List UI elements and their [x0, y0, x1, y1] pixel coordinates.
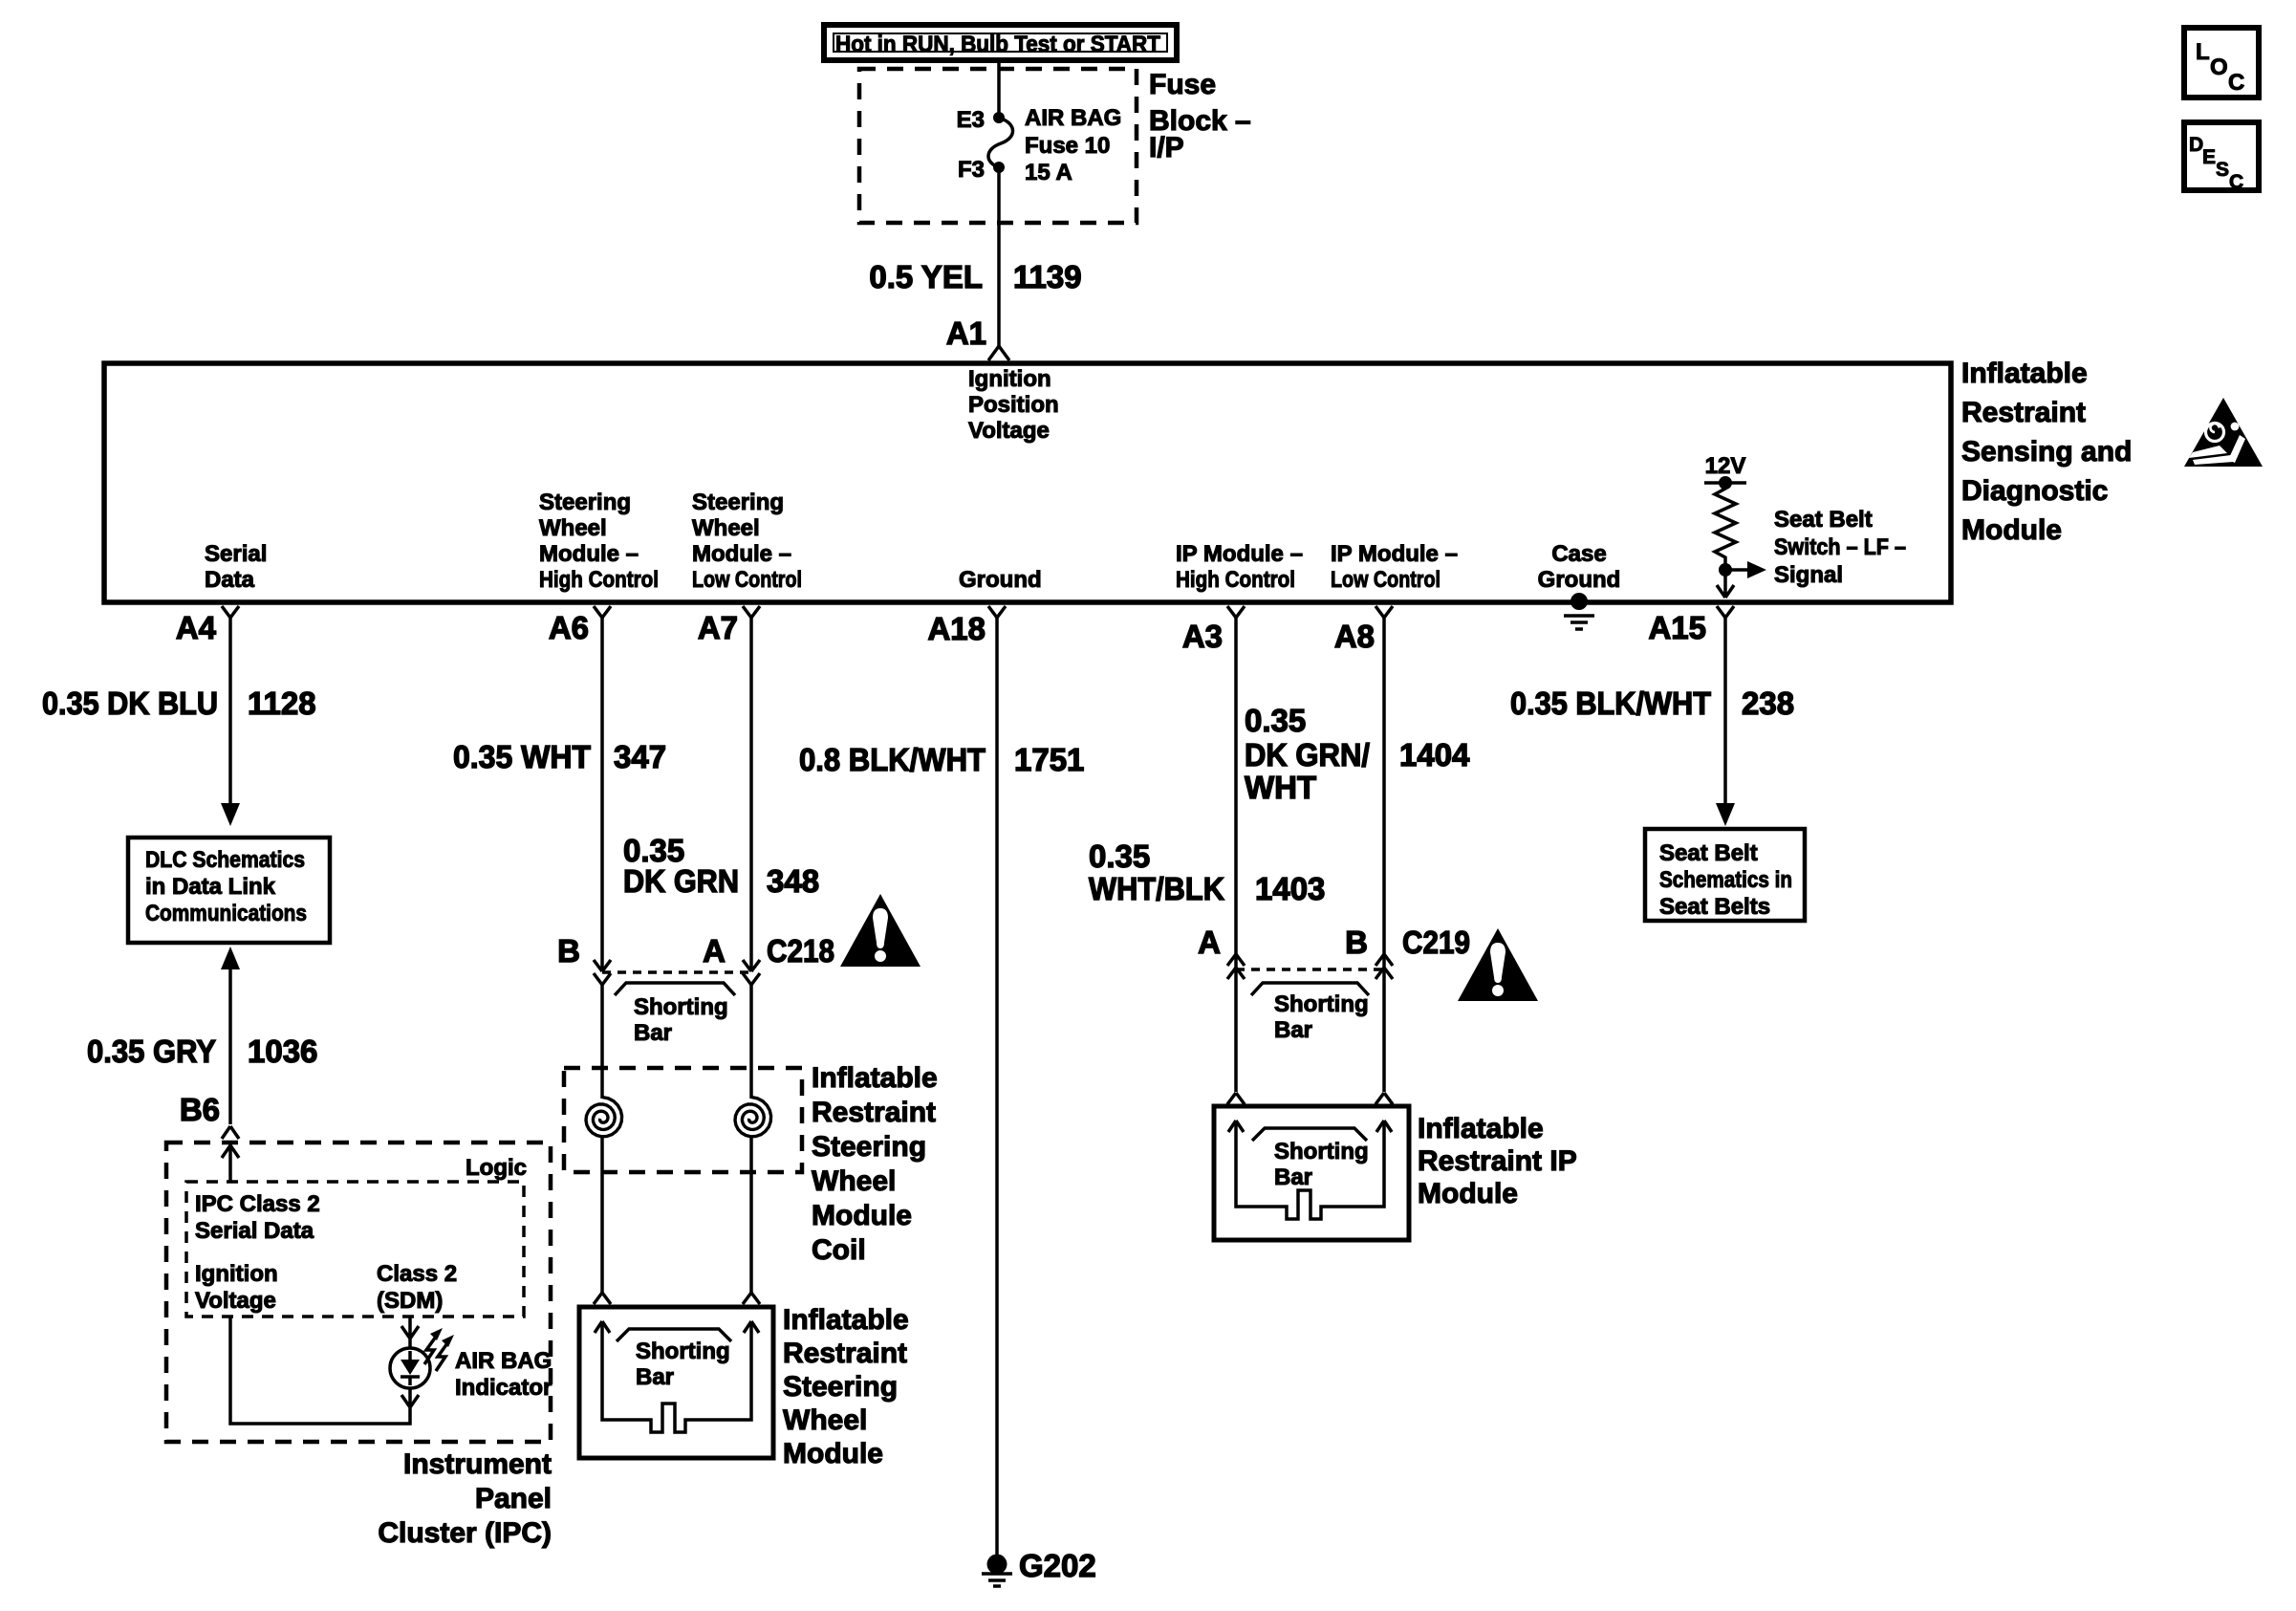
- svg-text:Bar: Bar: [634, 1020, 672, 1046]
- svg-text:A6: A6: [549, 610, 589, 645]
- label Inflatable Restraint IP Module: [1418, 1113, 1577, 1209]
- svg-text:Ignition: Ignition: [968, 366, 1051, 392]
- svg-text:(SDM): (SDM): [377, 1288, 443, 1314]
- svg-text:348: 348: [767, 863, 819, 899]
- LED lightning arrows: [424, 1328, 454, 1371]
- wire label 0.35 DK GRN 348: [623, 833, 819, 899]
- module name Inflatable Restraint Sensing and Diagnostic Module: [1961, 358, 2132, 546]
- label Class 2 (SDM): [377, 1261, 457, 1314]
- pin label SWM High Control: [539, 490, 659, 593]
- svg-text:Wheel: Wheel: [539, 515, 607, 541]
- svg-text:Steering: Steering: [539, 490, 631, 515]
- svg-text:Shorting: Shorting: [1274, 991, 1369, 1017]
- wire LED cathode down with chevron: [401, 1388, 419, 1409]
- svg-text:DLC Schematics: DLC Schematics: [145, 847, 305, 873]
- svg-text:AIR BAG: AIR BAG: [1025, 105, 1121, 131]
- svg-text:IP Module –: IP Module –: [1176, 541, 1303, 567]
- wire label 0.35 BLK/WHT 238: [1510, 686, 1794, 721]
- wire into logic box: [222, 1143, 239, 1182]
- power 12V rail bar: [1704, 476, 1746, 490]
- svg-text:Serial Data: Serial Data: [195, 1218, 314, 1244]
- pin B6: [180, 1092, 239, 1139]
- A18 wire to G202: [995, 618, 999, 1557]
- svg-text:Ground: Ground: [1538, 567, 1621, 593]
- svg-text:I/P: I/P: [1149, 132, 1184, 163]
- IP module box: [1214, 1106, 1409, 1240]
- svg-text:A7: A7: [698, 610, 738, 645]
- wire logic to LED loop: [230, 1317, 410, 1424]
- svg-text:IP Module –: IP Module –: [1331, 541, 1458, 567]
- svg-text:Inflatable: Inflatable: [783, 1304, 909, 1336]
- svg-text:C218: C218: [767, 933, 834, 969]
- svg-text:F3: F3: [958, 157, 985, 183]
- svg-text:Shorting: Shorting: [634, 994, 728, 1020]
- label AIR BAG Indicator: [455, 1348, 552, 1401]
- svg-text:Class 2: Class 2: [377, 1261, 457, 1287]
- svg-text:Sensing and: Sensing and: [1961, 436, 2132, 468]
- svg-text:Module: Module: [1961, 514, 2062, 546]
- svg-text:Indicator: Indicator: [455, 1375, 552, 1401]
- A15 wire down: [1723, 618, 1727, 805]
- fuse block name: [1149, 69, 1251, 163]
- LED diode symbol: [401, 1351, 420, 1385]
- svg-text:1036: 1036: [248, 1034, 317, 1069]
- wire label 0.35 DK BLU 1128: [42, 686, 316, 721]
- DESC icon: [2184, 122, 2259, 193]
- svg-text:Panel: Panel: [475, 1483, 552, 1514]
- svg-text:E3: E3: [957, 107, 985, 133]
- svg-text:Wheel: Wheel: [812, 1165, 896, 1197]
- pin label IP Module Low Control: [1331, 541, 1458, 593]
- svg-text:A: A: [1198, 925, 1221, 960]
- svg-text:0.35 WHT: 0.35 WHT: [453, 739, 591, 774]
- pin A4: [176, 606, 239, 645]
- svg-text:Shorting: Shorting: [1274, 1139, 1369, 1165]
- coil spiral left: [586, 985, 622, 1293]
- A3 wire down: [1234, 618, 1238, 985]
- svg-text:Module –: Module –: [539, 541, 639, 567]
- IP module internal shorting bar circuit: [1228, 1121, 1392, 1219]
- svg-text:Module –: Module –: [692, 541, 791, 567]
- Logic dashed box: [186, 1182, 524, 1317]
- svg-text:Steering: Steering: [812, 1131, 926, 1163]
- wire from title box into fuse block: [997, 60, 1001, 116]
- svg-text:O: O: [2210, 54, 2228, 80]
- shorting bar bracket C219: [1251, 983, 1369, 1043]
- svg-text:0.35 DK BLU: 0.35 DK BLU: [42, 686, 218, 721]
- svg-text:Module: Module: [783, 1438, 883, 1469]
- svg-text:Serial: Serial: [205, 541, 267, 567]
- warning triangle C219: [1458, 928, 1538, 1001]
- svg-text:Diagnostic: Diagnostic: [1961, 475, 2108, 507]
- svg-text:L: L: [2196, 39, 2210, 65]
- svg-text:Inflatable: Inflatable: [1961, 358, 2088, 389]
- label IPC Class 2 Serial Data: [195, 1191, 320, 1244]
- DLC Schematics box: [128, 838, 330, 943]
- svg-text:Logic: Logic: [466, 1155, 527, 1181]
- resistor pull-up (seat belt switch bias): [1715, 483, 1736, 570]
- connector C218 labels: [557, 933, 834, 969]
- svg-text:Wheel: Wheel: [692, 515, 760, 541]
- svg-text:Signal: Signal: [1774, 562, 1843, 588]
- svg-text:C: C: [2229, 171, 2243, 193]
- svg-text:Restraint: Restraint: [783, 1338, 907, 1369]
- wire label 0.5 YEL 1139: [869, 259, 1081, 294]
- wire Class 2 (SDM) to LED anode: [401, 1317, 419, 1348]
- svg-text:S: S: [2216, 159, 2229, 181]
- A4 wire down: [228, 618, 232, 805]
- connector C218: [594, 960, 760, 985]
- label Inflatable Restraint Steering Wheel Module Coil: [812, 1062, 938, 1266]
- wire label 0.8 BLK/WHT 1751: [799, 742, 1084, 777]
- pin A3: [1182, 606, 1245, 654]
- svg-text:C219: C219: [1402, 925, 1470, 960]
- svg-text:0.5 YEL: 0.5 YEL: [869, 259, 983, 294]
- fuse F10 AIR BAG 15A element: [988, 118, 1013, 167]
- svg-text:AIR BAG: AIR BAG: [455, 1348, 552, 1374]
- svg-text:0.8 BLK/WHT: 0.8 BLK/WHT: [799, 742, 986, 777]
- svg-text:Seat Belts: Seat Belts: [1659, 894, 1770, 920]
- pin A1: [946, 316, 1009, 360]
- pin label Serial Data: [205, 541, 267, 593]
- svg-text:Ignition: Ignition: [195, 1261, 278, 1287]
- svg-text:Bar: Bar: [1274, 1165, 1312, 1190]
- wire label 0.35 GRY 1036: [87, 1034, 317, 1069]
- ground case-ground symbol on SDM: [1564, 593, 1594, 629]
- svg-text:347: 347: [614, 739, 666, 774]
- wire up into DLC box: [228, 968, 232, 1124]
- svg-text:in Data Link: in Data Link: [145, 874, 276, 900]
- wire label 0.35 WHT/BLK 1403: [1089, 838, 1325, 906]
- svg-text:B: B: [1345, 925, 1368, 960]
- wire resistor to pin A15 with chevron: [1717, 570, 1734, 598]
- wire label 0.35 DK GRN/WHT 1404: [1245, 703, 1470, 805]
- svg-text:Inflatable: Inflatable: [1418, 1113, 1544, 1144]
- svg-text:Schematics in: Schematics in: [1659, 867, 1792, 893]
- seat belt schematics box: [1645, 829, 1805, 921]
- svg-text:15 A: 15 A: [1025, 160, 1072, 185]
- svg-text:Seat Belt: Seat Belt: [1659, 840, 1758, 866]
- pin A7: [698, 606, 760, 645]
- svg-text:Data: Data: [205, 567, 255, 593]
- IPC dashed box: [166, 1143, 551, 1442]
- LED AIR BAG indicator circle: [390, 1348, 430, 1388]
- svg-text:Low Control: Low Control: [692, 567, 802, 593]
- svg-text:Module: Module: [1418, 1178, 1518, 1209]
- shorting bar bracket C218: [615, 983, 735, 1046]
- svg-text:Seat Belt: Seat Belt: [1774, 507, 1873, 533]
- pin A15: [1648, 606, 1734, 645]
- svg-text:High Control: High Control: [1176, 567, 1295, 593]
- svg-text:Coil: Coil: [812, 1234, 866, 1266]
- svg-text:1404: 1404: [1399, 737, 1470, 773]
- pin A18: [927, 606, 1006, 646]
- pin A8: [1334, 606, 1393, 654]
- connector C219: [1227, 954, 1393, 979]
- pin label Ignition Position Voltage: [968, 366, 1059, 444]
- svg-text:Inflatable: Inflatable: [812, 1062, 938, 1094]
- svg-text:1751: 1751: [1014, 742, 1084, 777]
- svg-text:Restraint: Restraint: [812, 1097, 936, 1128]
- svg-text:E: E: [2202, 146, 2216, 168]
- svg-text:Cluster (IPC): Cluster (IPC): [378, 1517, 552, 1549]
- connector C219 labels: [1198, 925, 1470, 960]
- svg-text:12V: 12V: [1705, 453, 1746, 479]
- wires into IP module: [1236, 985, 1384, 1092]
- module SDM outline box: [104, 363, 1951, 602]
- pin label SWM Low Control: [692, 490, 802, 593]
- svg-text:1128: 1128: [248, 686, 316, 721]
- svg-text:A3: A3: [1182, 619, 1223, 654]
- A7 wire down: [749, 618, 753, 971]
- Hot in RUN title box: [824, 25, 1177, 60]
- svg-text:Low Control: Low Control: [1331, 567, 1440, 593]
- svg-text:Hot in RUN, Bulb Test or START: Hot in RUN, Bulb Test or START: [835, 32, 1160, 57]
- A8 wire down: [1382, 618, 1386, 985]
- fuse F10 terminal E3 dot: [993, 112, 1005, 123]
- svg-text:IPC Class 2: IPC Class 2: [195, 1191, 320, 1217]
- fuse F10 terminal F3 dot: [993, 162, 1005, 173]
- svg-text:Fuse: Fuse: [1149, 69, 1216, 100]
- arrow into DLC box: [221, 803, 240, 826]
- signal arrow to Seat Belt Switch label: [1725, 561, 1766, 578]
- svg-text:Bar: Bar: [1274, 1017, 1312, 1043]
- svg-text:Restraint: Restraint: [1961, 397, 2086, 428]
- chevrons into SWM module: [594, 1293, 760, 1304]
- svg-text:WHT/BLK: WHT/BLK: [1089, 871, 1224, 906]
- svg-text:DK GRN/: DK GRN/: [1245, 737, 1370, 773]
- svg-text:DK GRN: DK GRN: [623, 863, 739, 899]
- svg-text:Ground: Ground: [959, 567, 1042, 593]
- svg-text:0.35: 0.35: [1245, 703, 1306, 738]
- svg-text:Bar: Bar: [636, 1364, 674, 1390]
- svg-text:Steering: Steering: [692, 490, 784, 515]
- svg-text:A8: A8: [1334, 619, 1375, 654]
- LOC icon: [2184, 28, 2259, 98]
- svg-text:Voltage: Voltage: [968, 418, 1050, 444]
- SWM internal shorting bar circuit: [595, 1321, 759, 1432]
- svg-text:Communications: Communications: [145, 901, 307, 926]
- svg-text:1139: 1139: [1013, 259, 1082, 294]
- svg-text:Voltage: Voltage: [195, 1288, 276, 1314]
- svg-text:A15: A15: [1648, 610, 1706, 645]
- svg-text:D: D: [2189, 134, 2203, 156]
- svg-text:1403: 1403: [1255, 871, 1325, 906]
- svg-text:Position: Position: [968, 392, 1059, 418]
- label Instrument Panel Cluster: [378, 1448, 552, 1549]
- warning triangle C218: [840, 894, 921, 967]
- svg-text:A: A: [703, 933, 726, 969]
- wire fuse to SDM A1: [997, 167, 1001, 346]
- A6 wire down: [600, 618, 604, 971]
- wire label 0.35 WHT 347: [453, 739, 666, 774]
- svg-text:Shorting: Shorting: [636, 1339, 730, 1364]
- svg-text:0.35 GRY: 0.35 GRY: [87, 1034, 216, 1069]
- svg-text:Fuse 10: Fuse 10: [1025, 133, 1110, 159]
- node junction at resistor bottom: [1719, 563, 1732, 577]
- svg-text:0.35: 0.35: [1089, 838, 1150, 874]
- svg-text:A4: A4: [176, 610, 217, 645]
- svg-text:High Control: High Control: [539, 567, 659, 593]
- airbag warning triangle: [2184, 398, 2263, 467]
- pin A6: [549, 606, 611, 645]
- svg-text:Switch – LF –: Switch – LF –: [1774, 534, 1906, 560]
- svg-text:0.35 BLK/WHT: 0.35 BLK/WHT: [1510, 686, 1711, 721]
- fuse value label: [1025, 105, 1121, 185]
- coil spiral right: [735, 985, 771, 1293]
- pin label IP Module High Control: [1176, 541, 1303, 593]
- svg-text:WHT: WHT: [1245, 770, 1316, 805]
- steering wheel module box: [579, 1307, 773, 1458]
- svg-text:Steering: Steering: [783, 1371, 898, 1403]
- svg-text:Wheel: Wheel: [783, 1404, 867, 1436]
- label Inflatable Restraint Steering Wheel Module: [783, 1304, 909, 1469]
- svg-text:B6: B6: [180, 1092, 220, 1127]
- svg-text:B: B: [557, 933, 580, 969]
- svg-text:Module: Module: [812, 1200, 912, 1231]
- label Ignition Voltage: [195, 1261, 278, 1314]
- svg-text:C: C: [2228, 70, 2244, 96]
- svg-text:Case: Case: [1551, 541, 1606, 567]
- pin label Seat Belt Switch: [1774, 507, 1906, 588]
- svg-text:Instrument: Instrument: [403, 1448, 552, 1480]
- svg-text:238: 238: [1742, 686, 1794, 721]
- svg-text:A18: A18: [927, 611, 986, 646]
- ground G202 symbol: [982, 1548, 1096, 1586]
- svg-text:A1: A1: [946, 316, 986, 351]
- pin label Case Ground: [1538, 541, 1621, 593]
- svg-text:Restraint IP: Restraint IP: [1418, 1145, 1577, 1177]
- svg-text:G202: G202: [1019, 1548, 1096, 1583]
- fuse block dashed box: [859, 69, 1137, 223]
- steering wheel coil dashed box: [564, 1068, 802, 1172]
